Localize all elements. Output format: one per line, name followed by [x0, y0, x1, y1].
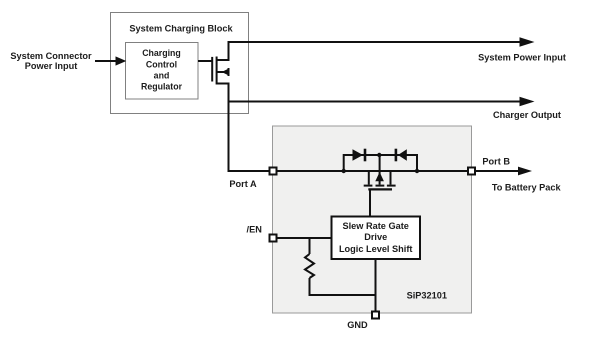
- svg-text:/EN: /EN: [247, 224, 263, 234]
- svg-text:Power Input: Power Input: [25, 61, 78, 71]
- svg-text:SiP32101: SiP32101: [407, 291, 447, 301]
- wire To Battery Pack with arrowhead: [476, 167, 562, 193]
- wire Port A horizontal: [228, 170, 468, 172]
- svg-text:GND: GND: [347, 320, 368, 330]
- svg-text:Charger Output: Charger Output: [493, 110, 561, 120]
- transistor Q1 (charging block pass FET): [212, 41, 229, 172]
- block Slew Rate Gate Drive Logic Level Shift: [332, 217, 421, 260]
- block Charging Control and Regulator (inner box): [126, 43, 199, 100]
- transistor Q2 (SiP32101 pass FET): [364, 155, 396, 189]
- svg-text:Regulator: Regulator: [141, 82, 183, 92]
- diode D1 (left body diode): [344, 149, 417, 170]
- node Port A (square pin and label): [229, 168, 276, 190]
- wire System Power Input with arrowhead: [228, 37, 566, 62]
- svg-text:To Battery Pack: To Battery Pack: [492, 183, 562, 193]
- svg-text:Drive: Drive: [364, 232, 387, 242]
- svg-text:and: and: [154, 71, 170, 81]
- svg-text:Port B: Port B: [482, 157, 510, 167]
- block System Charging Block (outer box): [111, 13, 249, 114]
- svg-text:Charging: Charging: [142, 48, 181, 58]
- svg-text:Port A: Port A: [229, 179, 257, 189]
- resistor R1 (EN pulldown): [305, 238, 314, 296]
- svg-text:Slew Rate Gate: Slew Rate Gate: [343, 221, 409, 231]
- wire gate of Q2 down to slew-rate block: [369, 189, 371, 216]
- wire Charger Output with arrowhead: [228, 97, 561, 121]
- node System Connector Power Input (label): [10, 51, 92, 71]
- svg-text:Logic Level Shift: Logic Level Shift: [339, 244, 413, 254]
- svg-text:System Connector: System Connector: [10, 51, 92, 61]
- svg-text:Control: Control: [146, 59, 177, 69]
- diode D2 (right body diode): [396, 149, 417, 170]
- node junction dots: [342, 153, 420, 173]
- wire resistor to GND net: [309, 294, 376, 296]
- IC block SiP32101 (gray body): [273, 126, 472, 313]
- wire slew-rate block to GND: [375, 259, 377, 312]
- wire gate of Q1 from regulator: [198, 60, 213, 62]
- node Port B (square pin and label): [468, 157, 510, 175]
- wire input arrow into charging block: [95, 56, 126, 65]
- node GND (square pin and label): [347, 312, 379, 331]
- svg-text:System Charging Block: System Charging Block: [129, 23, 233, 33]
- svg-text:System Power Input: System Power Input: [478, 53, 566, 63]
- node /EN (label, square pin and wire): [247, 224, 331, 241]
